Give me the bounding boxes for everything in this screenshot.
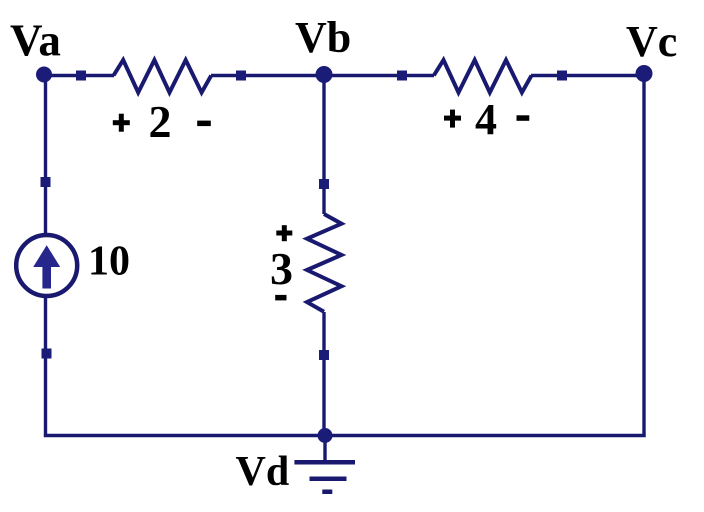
svg-text:Va: Va: [10, 16, 61, 66]
resistor R4: [434, 60, 532, 93]
junction square R3 bottom terminal: [319, 350, 329, 360]
svg-text:10: 10: [88, 239, 130, 285]
junction square R4 left terminal: [397, 71, 407, 81]
svg-text:Vb: Vb: [295, 13, 351, 62]
wire Va down to current source: [44, 74, 47, 234]
junction square I1 top terminal: [41, 177, 51, 187]
junction square R2 left terminal: [76, 71, 86, 81]
resistor R3: [307, 214, 342, 312]
svg-text:2: 2: [149, 96, 172, 147]
polarity minus R4: [517, 115, 530, 121]
polarity minus R3: [275, 295, 286, 301]
svg-text:Vc: Vc: [626, 17, 677, 66]
junction square R4 right terminal: [557, 71, 567, 81]
current source I1 arrow: [33, 245, 60, 288]
polarity plus R3: [276, 225, 292, 241]
wire resistor R2 right lead to Vb: [211, 74, 324, 77]
polarity minus R2: [197, 121, 211, 127]
svg-text:3: 3: [270, 243, 293, 294]
node Va dot: [36, 67, 52, 83]
polarity plus R2: [113, 114, 130, 132]
wire resistor R3 down to bottom rail: [322, 312, 325, 436]
ground symbol: [294, 460, 355, 494]
wire bottom rail: [44, 434, 646, 437]
node Vb dot: [316, 66, 333, 83]
svg-text:Vd: Vd: [236, 449, 290, 495]
junction square R2 right terminal: [236, 71, 246, 81]
wire Vc down to bottom rail: [642, 74, 645, 438]
svg-text:4: 4: [475, 95, 497, 144]
current source I1 circle: [16, 235, 77, 296]
wire Vb down to resistor R3: [322, 74, 325, 214]
junction square R3 top terminal: [319, 179, 329, 189]
node Vd junction dot: [318, 428, 333, 443]
wire ground stub: [323, 436, 326, 462]
wire current source down to bottom rail: [44, 297, 47, 437]
wire Va to resistor R2 left lead: [44, 74, 114, 77]
wire Vb to resistor R4 left lead: [324, 74, 434, 77]
node Vc dot: [636, 65, 653, 82]
junction square I1 bottom terminal: [42, 349, 52, 359]
resistor R2: [114, 60, 212, 93]
polarity plus R4: [444, 110, 461, 128]
wire resistor R4 right lead to Vc: [531, 74, 644, 77]
